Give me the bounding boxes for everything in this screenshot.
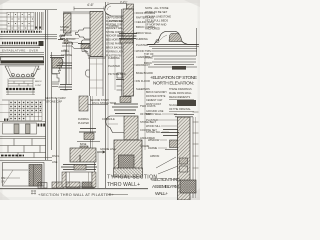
floor line — [88, 104, 108, 106]
rosettes — [12, 73, 34, 77]
svg-text:FRAME: FRAME — [148, 146, 157, 150]
svg-text:ANCHORED: ANCHORED — [145, 27, 160, 31]
svg-text:GRADE LINE: GRADE LINE — [100, 147, 116, 151]
frieze inscription band — [2, 49, 39, 53]
svg-text:FURRING: FURRING — [108, 56, 120, 60]
corner shading top-left — [0, 0, 10, 5]
svg-text:4'-6": 4'-6" — [87, 3, 95, 7]
leader diagonals — [156, 157, 178, 174]
interior cornice cluster — [118, 34, 138, 44]
svg-text:3'-1½": 3'-1½" — [120, 0, 127, 4]
main hatched strip — [123, 9, 134, 96]
pedestal panel — [66, 172, 92, 187]
svg-text:WORK TO BE SET: WORK TO BE SET — [145, 10, 168, 14]
wall no.1 leader labels left side — [60, 25, 76, 57]
darker core — [119, 155, 135, 169]
svg-text:CONSOLE: CONSOLE — [102, 117, 115, 121]
svg-text:FIN FL: FIN FL — [92, 102, 100, 105]
svg-text:TOP OF: TOP OF — [144, 52, 154, 56]
shaft brick coursing — [8, 79, 33, 95]
note text rows — [145, 6, 171, 31]
title: section thru assembly room wall — [150, 177, 180, 197]
svg-text:BRICK WALL: BRICK WALL — [136, 31, 152, 35]
left margin lines — [0, 104, 9, 106]
pilaster hatch at second floor — [79, 96, 88, 111]
hatched ovolo blob — [52, 58, 63, 68]
mid moulding cluster — [57, 63, 73, 68]
svg-text:STONE TRIM: STONE TRIM — [100, 101, 116, 105]
dentil band upper — [1, 31, 42, 33]
svg-text:OF THE ORIGINAL: OF THE ORIGINAL — [169, 108, 191, 111]
corner shading bottom-left — [0, 192, 10, 200]
wall edge verticals below — [89, 57, 91, 97]
svg-text:CORNICE: CORNICE — [60, 33, 72, 37]
footing stipple — [114, 168, 143, 177]
base cluster — [59, 85, 73, 90]
big coping cap profile — [105, 4, 127, 17]
label leader lines — [65, 31, 79, 43]
wall no.3 labels left — [146, 112, 162, 158]
svg-text:NORTH ELEVATION:: NORTH ELEVATION: — [153, 81, 194, 87]
label leaders to wall — [134, 13, 136, 81]
soffit coffer grid — [7, 12, 34, 30]
pilaster hatched jamb in plan — [29, 165, 42, 187]
corner shading bottom-right — [186, 188, 200, 200]
svg-text:STONE: STONE — [60, 25, 69, 29]
panel band — [0, 121, 46, 123]
base lines of profile — [147, 44, 199, 46]
svg-text:BED MOULD: BED MOULD — [60, 37, 76, 41]
bottom-left margin marks — [1, 177, 5, 184]
dark sill band — [1, 155, 24, 157]
small plan boxes above title — [38, 183, 47, 189]
svg-text:APRON: APRON — [150, 154, 159, 158]
svg-text:NOTE · ALL STONE: NOTE · ALL STONE — [145, 6, 169, 10]
pedestal cap cluster — [61, 165, 97, 170]
left fascia bands — [0, 13, 7, 29]
coping lines over parapet — [63, 11, 103, 13]
top cap — [174, 115, 194, 117]
svg-text:FURRING: FURRING — [136, 37, 148, 41]
svg-text:+SECTION THRO WALL AT PILASTER: +SECTION THRO WALL AT PILASTER+ — [38, 193, 115, 197]
hatched strip — [178, 117, 191, 200]
svg-text:BRICK MASONRY: BRICK MASONRY — [146, 91, 167, 94]
faint edge shading — [0, 0, 200, 3]
svg-text:PICTURE MLD: PICTURE MLD — [108, 72, 126, 76]
svg-text:STONE: STONE — [144, 56, 153, 60]
svg-text:PARAPET WALL: PARAPET WALL — [106, 27, 125, 30]
modillion hatch columns — [36, 12, 44, 30]
svg-text:BASE BOARD: BASE BOARD — [136, 71, 153, 75]
top edge line — [0, 9, 57, 11]
svg-text:ENTABLATVRE · OVER: ENTABLATVRE · OVER — [2, 49, 39, 53]
svg-text:THRO WALL+: THRO WALL+ — [107, 182, 140, 188]
bed moulding lines — [0, 34, 57, 36]
bracket profile mid-height — [86, 70, 90, 77]
lines under dentils — [0, 45, 40, 47]
wall no.3 dimension ticks — [193, 112, 199, 168]
caption — [45, 96, 66, 104]
svg-text:CAP: CAP — [36, 68, 41, 71]
wall no.1 small labels mid — [78, 99, 109, 146]
heavy moulding cluster — [112, 97, 138, 114]
svg-text:PLASTER: PLASTER — [108, 64, 120, 68]
svg-text:FURRING: FURRING — [78, 118, 89, 121]
svg-text:WINDOW: WINDOW — [148, 138, 160, 142]
paper background — [0, 0, 200, 200]
console profile outline — [106, 116, 124, 133]
svg-text:MADE FROM WALL: MADE FROM WALL — [169, 92, 192, 95]
svg-text:PAINTED WHITE: PAINTED WHITE — [146, 95, 166, 98]
stepped course lines — [152, 55, 196, 57]
svg-text:WALL+: WALL+ — [155, 191, 168, 197]
dentil band dark — [2, 42, 38, 44]
svg-text:COURSE: COURSE — [61, 53, 72, 57]
sill cluster — [161, 130, 179, 150]
svg-text:WOOD SILL: WOOD SILL — [146, 124, 161, 128]
wall no.1 pedestal: upper hatched block — [52, 148, 97, 187]
svg-text:PANEL: PANEL — [61, 49, 70, 53]
svg-text:FIN FLOOR: FIN FLOOR — [136, 79, 150, 83]
hatched cut of moulding — [169, 34, 182, 42]
ceiling line pair — [88, 56, 106, 58]
small text left of steps — [144, 52, 154, 65]
side leader text — [35, 68, 42, 87]
middle narrow hatched wall — [124, 116, 138, 140]
trim blob cluster — [79, 129, 96, 140]
window frame boxes in jamb — [180, 158, 188, 164]
wall no.2 labels right — [136, 11, 157, 148]
cornice profile steps left of wall — [76, 28, 91, 39]
dark belt course — [6, 88, 35, 90]
svg-text:FURRING LATH: FURRING LATH — [106, 51, 124, 54]
wall no.3 leader lines — [158, 114, 177, 148]
capital trapezoid — [5, 66, 39, 77]
corner shading top-right — [184, 0, 200, 7]
right border verticals of left detail — [45, 10, 47, 160]
svg-text:FIN FL: FIN FL — [52, 155, 60, 158]
cap slab — [1, 57, 44, 61]
wall no.1 leader labels right side — [106, 13, 126, 58]
svg-text:SET IN FULL BEDS: SET IN FULL BEDS — [145, 19, 168, 23]
mid-height attached trim — [117, 73, 123, 78]
svg-text:THESE DRAWINGS: THESE DRAWINGS — [169, 88, 192, 91]
svg-text:ANCHOR: ANCHOR — [62, 41, 73, 45]
svg-text:LINE: LINE — [52, 161, 58, 164]
svg-text:BED MORTAR: BED MORTAR — [106, 39, 122, 42]
title: typical section — [107, 175, 157, 189]
svg-text:ASSEMBLY RM: ASSEMBLY RM — [152, 184, 179, 190]
svg-text:WASH COAT: WASH COAT — [146, 103, 161, 106]
coffer dots — [10, 102, 41, 119]
svg-text:MEASUREMENTS: MEASUREMENTS — [169, 96, 190, 99]
svg-text:BRICK: BRICK — [144, 61, 152, 65]
svg-text:BRICK WALL: BRICK WALL — [146, 112, 162, 116]
svg-text:GR: GR — [1, 181, 5, 184]
title: elevation of stone — [150, 75, 197, 87]
architrave dark cluster — [78, 43, 90, 45]
svg-text:CAP FLASHING: CAP FLASHING — [106, 16, 124, 19]
note block under elevation title — [146, 88, 192, 113]
modillion row right — [4, 119, 45, 127]
scroll eye — [156, 39, 159, 42]
svg-text:OF MORTAR AND: OF MORTAR AND — [145, 23, 167, 27]
svg-text:INDIANA LIMESTONE: INDIANA LIMESTONE — [145, 15, 171, 19]
main hatched wall strip — [90, 12, 103, 57]
vertical dim line — [114, 56, 116, 90]
svg-text:PLASTER: PLASTER — [78, 122, 89, 125]
dark shadow under cap — [1, 61, 45, 64]
svg-text:STONE CAP: STONE CAP — [46, 100, 62, 104]
svg-text:BRICK BACKING: BRICK BACKING — [106, 47, 125, 50]
main hatched strip upper part — [123, 4, 134, 9]
svg-text:+SECTION THRO: +SECTION THRO — [150, 177, 180, 183]
svg-text:CEMENT CAP: CEMENT CAP — [146, 99, 163, 102]
small left labels — [52, 155, 60, 164]
small dark label box — [172, 66, 186, 70]
wall no.2 labels left — [100, 56, 126, 151]
cap plate lines — [50, 55, 64, 57]
svg-text:BRICK: BRICK — [35, 81, 42, 83]
base blob — [77, 141, 100, 143]
coffer rosette dots — [8, 14, 33, 29]
lower wide hatched wall — [114, 140, 142, 172]
cap mouldings — [0, 54, 44, 56]
svg-text:PLASTER: PLASTER — [136, 43, 148, 47]
outer wythe hatch — [64, 13, 72, 33]
svg-text:JOINT: JOINT — [35, 85, 42, 87]
cyma profile mound — [148, 31, 198, 44]
bottom dark box — [180, 180, 196, 193]
arrow note — [97, 151, 105, 153]
sill steps — [84, 48, 90, 56]
vertical dim line — [65, 50, 67, 90]
svg-text:BASE: BASE — [80, 143, 87, 146]
svg-text:STONE SILL: STONE SILL — [146, 130, 162, 134]
svg-text:+ELEVATION OF STONE: +ELEVATION OF STONE — [150, 75, 197, 81]
pilaster shaft lines — [66, 44, 68, 84]
svg-text:PLASTER: PLASTER — [146, 118, 158, 122]
